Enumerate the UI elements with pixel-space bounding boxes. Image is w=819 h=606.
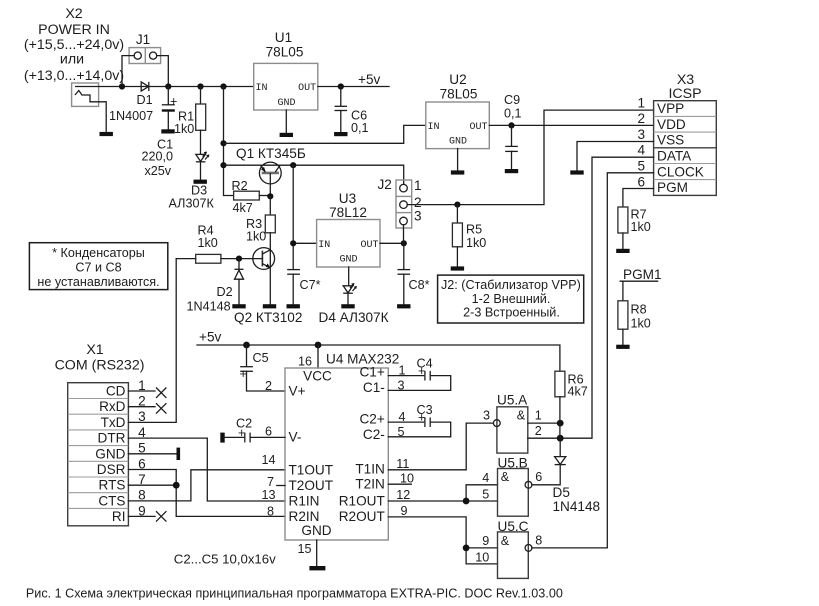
svg-text:R8: R8 [631, 303, 647, 317]
svg-text:X1: X1 [86, 342, 103, 358]
svg-text:D2: D2 [217, 285, 233, 299]
svg-text:VPP: VPP [657, 101, 684, 116]
ground R8 [616, 345, 629, 349]
svg-text:78L05: 78L05 [266, 45, 304, 60]
wire U2 OUT to VDD [489, 124, 653, 126]
svg-text:7: 7 [267, 475, 274, 489]
svg-text:U1: U1 [275, 30, 292, 45]
wire CLOCK line [532, 173, 654, 548]
svg-text:D1: D1 [137, 93, 153, 107]
node R1 branch [197, 83, 203, 89]
svg-text:R2: R2 [232, 179, 248, 193]
svg-text:2: 2 [637, 111, 645, 126]
svg-text:0,1: 0,1 [504, 107, 522, 121]
no-connect X1 pin9 [156, 511, 166, 521]
capacitor C6 0,1 [335, 87, 369, 136]
node R2OUT branch [463, 545, 470, 552]
svg-text:DATA: DATA [657, 148, 692, 163]
note box C7 C8 [29, 243, 167, 290]
svg-text:R1OUT: R1OUT [339, 493, 385, 508]
svg-text:C1-: C1- [363, 380, 385, 395]
svg-text:10: 10 [475, 550, 489, 564]
svg-text:12: 12 [396, 488, 410, 502]
node U5.A in1 / R6 [557, 420, 564, 427]
svg-text:4k7: 4k7 [568, 385, 588, 399]
wire input riser to R2 [224, 87, 234, 196]
no-connect X1 pin1 [156, 388, 166, 398]
jumper J1 [122, 32, 168, 87]
svg-text:D4 АЛ307К: D4 АЛ307К [319, 310, 389, 325]
svg-text:Q1 КТ345Б: Q1 КТ345Б [236, 146, 306, 161]
ground C8 [397, 304, 410, 308]
ground U4 [309, 566, 325, 570]
wire X1 pin1 stub [128, 390, 155, 392]
ground C6 [334, 132, 347, 136]
svg-text:VCC: VCC [303, 369, 332, 384]
wire U3 OUT node [380, 242, 404, 244]
wire DATA line [560, 157, 653, 438]
connector X2 power jack [72, 83, 107, 132]
svg-text:GND: GND [339, 255, 357, 266]
svg-text:T1OUT: T1OUT [289, 462, 334, 477]
svg-text:3: 3 [637, 127, 645, 142]
svg-text:1k0: 1k0 [631, 317, 651, 331]
resistor R1 1k0 [174, 87, 206, 155]
svg-text:U5.A: U5.A [497, 393, 528, 408]
transistor Q1 КТ345Б [236, 146, 306, 196]
svg-text:1: 1 [637, 96, 645, 111]
LED D4 АЛ307К [319, 283, 389, 325]
wire DSR to R2IN [128, 470, 285, 517]
capacitor C5 [240, 345, 286, 391]
svg-text:1N4148: 1N4148 [187, 300, 231, 314]
svg-text:T2OUT: T2OUT [289, 478, 334, 493]
ground D3 [194, 180, 207, 184]
svg-text:x25v: x25v [145, 164, 172, 178]
svg-text:VDD: VDD [657, 117, 686, 132]
svg-text:COM (RS232): COM (RS232) [55, 358, 145, 374]
ground U2 [451, 170, 464, 174]
node VCC tap [315, 342, 322, 349]
ground R5 [451, 266, 464, 270]
svg-text:2: 2 [265, 379, 272, 393]
svg-text:4: 4 [482, 471, 489, 485]
capacitor C2 [220, 417, 285, 443]
regulator U2 78L05 [426, 72, 490, 170]
svg-text:D5: D5 [553, 485, 570, 500]
ground D2 [232, 304, 245, 308]
node input riser [220, 83, 226, 89]
svg-text:9: 9 [482, 534, 489, 548]
ground R7 [616, 249, 629, 253]
node Q1 base / R2 / R3 [267, 193, 273, 199]
ground X1 GND common bar [177, 448, 181, 460]
svg-text:C2-: C2- [363, 427, 385, 442]
connector X3 ICSP [637, 72, 716, 195]
svg-text:+5v: +5v [358, 72, 380, 87]
wire main input line [99, 86, 254, 88]
svg-text:0,1: 0,1 [351, 121, 369, 135]
diode D2 1N4148 [187, 259, 244, 314]
svg-text:OUT: OUT [469, 122, 487, 133]
svg-text:IN: IN [318, 240, 330, 251]
svg-text:IN: IN [256, 83, 268, 94]
svg-text:ICSP: ICSP [668, 86, 701, 102]
capacitor C8 [398, 243, 430, 304]
connector X1 COM (RS232) [55, 342, 147, 526]
node U5.A in2 / DATA / D5 [557, 435, 564, 442]
svg-text:POWER IN: POWER IN [38, 22, 110, 38]
net +5v rail (bottom) [197, 330, 560, 372]
ground C1 [161, 129, 174, 133]
svg-text:C2: C2 [236, 417, 252, 431]
svg-text:V-: V- [289, 430, 302, 445]
node U3 OUT / J2-3 / C8 [401, 240, 407, 246]
wire U5.C input9 branch [466, 547, 497, 549]
node DSR-RTS join [173, 482, 180, 489]
gate U5.C [475, 519, 542, 579]
svg-text:C5: C5 [253, 351, 269, 365]
svg-text:1: 1 [414, 178, 422, 193]
svg-text:78L12: 78L12 [329, 205, 367, 220]
node main-J1 left [119, 83, 125, 89]
svg-text:1k0: 1k0 [198, 236, 218, 250]
svg-text:OUT: OUT [298, 83, 316, 94]
svg-text:DTR: DTR [98, 431, 126, 446]
svg-text:C7*: C7* [300, 278, 321, 292]
svg-text:RxD: RxD [99, 399, 126, 414]
svg-text:1k0: 1k0 [246, 230, 266, 244]
svg-text:C9: C9 [504, 93, 520, 107]
svg-text:14: 14 [261, 453, 275, 467]
wire TxD to R4 [128, 259, 176, 423]
svg-text:2: 2 [535, 424, 542, 438]
svg-text:CTS: CTS [98, 493, 125, 508]
svg-text:C4: C4 [417, 356, 433, 370]
resistor R4 1k0 [176, 224, 262, 264]
node U3 IN / C7 [290, 240, 296, 246]
resistor R8 1k0 [618, 301, 651, 345]
svg-text:U2: U2 [449, 72, 466, 87]
svg-text:PGM1: PGM1 [623, 267, 662, 282]
svg-text:&: & [501, 470, 510, 484]
no-connect X1 pin2 [156, 403, 166, 413]
svg-text:или: или [60, 52, 84, 68]
svg-text:&: & [517, 408, 526, 422]
svg-text:R2IN: R2IN [289, 509, 320, 524]
ground D4 [341, 304, 354, 308]
node riser-U2 rail [220, 140, 226, 146]
svg-text:GND: GND [449, 137, 467, 148]
svg-text:CLOCK: CLOCK [657, 164, 704, 179]
svg-text:1k0: 1k0 [466, 236, 486, 250]
svg-text:16: 16 [298, 355, 312, 369]
svg-text:J2: J2 [378, 177, 392, 192]
node collector rail / C7 branch [290, 162, 296, 168]
node C6 [338, 83, 344, 89]
svg-text:9: 9 [401, 504, 408, 518]
node C5 tap [243, 342, 250, 349]
capacitor C3 [388, 403, 450, 437]
ground Q2 [263, 304, 276, 308]
node Q2 base / D2 [236, 256, 242, 262]
svg-text:13: 13 [261, 488, 275, 502]
svg-text:RTS: RTS [99, 478, 126, 493]
wire J2-2 to VPP [407, 110, 653, 205]
svg-text:VSS: VSS [657, 133, 684, 148]
node riser-collector rail [220, 162, 226, 168]
svg-text:4k7: 4k7 [233, 201, 253, 215]
svg-text:GND: GND [301, 523, 331, 538]
svg-text:1: 1 [535, 409, 542, 423]
ground C9 [505, 169, 518, 173]
svg-text:1k0: 1k0 [631, 220, 651, 234]
svg-text:220,0: 220,0 [142, 150, 174, 164]
svg-text:5: 5 [482, 488, 489, 502]
wire U4 GND pin15 [316, 540, 318, 566]
svg-text:Рис. 1 Схема электрическая пр: Рис. 1 Схема электрическая принципиальна… [26, 587, 563, 601]
svg-text:С2...С5 10,0х16v: С2...С5 10,0х16v [174, 552, 276, 567]
wire DTR to R1IN [128, 438, 285, 501]
svg-text:J1: J1 [136, 32, 150, 47]
resistor R6 4k7 [555, 371, 588, 438]
wire R2OUT to U5.C inputs [388, 517, 497, 564]
svg-text:OUT: OUT [360, 240, 378, 251]
svg-text:1k0: 1k0 [174, 122, 194, 136]
svg-text:6: 6 [265, 425, 272, 439]
wire U1 out to +5v [318, 86, 389, 88]
resistor R2 4k7 [232, 179, 271, 215]
wire X1 pin9 stub [128, 515, 155, 517]
svg-text:4: 4 [637, 143, 645, 158]
svg-text:1N4007: 1N4007 [109, 109, 153, 123]
svg-text:Q2 КТ3102: Q2 КТ3102 [234, 310, 302, 325]
wire U5.B input4 branch [466, 485, 497, 501]
node C9 [508, 122, 514, 128]
svg-text:U3: U3 [339, 191, 356, 206]
svg-text:не устанавливаются.: не устанавливаются. [37, 275, 159, 289]
capacitor C9 0,1 [504, 93, 522, 169]
net PGM1 [620, 267, 661, 301]
wire R1OUT to U5.B inputs [388, 500, 497, 502]
note box J2 [438, 275, 584, 323]
svg-text:6: 6 [637, 174, 645, 189]
regulator U1 78L05 [254, 30, 318, 133]
IC U4 MAX232 [261, 352, 414, 557]
svg-text:5: 5 [637, 158, 645, 173]
svg-text:АЛ307К: АЛ307К [169, 197, 215, 211]
node R5 tap [454, 202, 460, 208]
wire C7 branch / U3 IN [293, 165, 316, 269]
capacitor C1 220,0 x25v [142, 87, 178, 179]
capacitor C4 [388, 356, 450, 390]
ground VSS [570, 170, 583, 174]
node D1 cathode / C1 [165, 83, 171, 89]
connector X2 label POWER IN [24, 6, 124, 84]
wire GND stub [128, 453, 176, 455]
stub T2OUT [277, 485, 285, 487]
ground U1 [280, 133, 293, 137]
ground C7 [287, 304, 300, 308]
svg-text:+5v: +5v [199, 330, 221, 345]
svg-text:T1IN: T1IN [355, 462, 384, 477]
svg-text:+: + [240, 367, 247, 381]
svg-text:11: 11 [396, 457, 409, 471]
svg-text:1-2 Внешний.: 1-2 Внешний. [472, 292, 551, 306]
svg-text:3: 3 [483, 409, 490, 423]
resistor R7 1k0 [618, 207, 651, 249]
wire RTS stub [128, 484, 176, 486]
svg-text:10: 10 [400, 472, 414, 486]
svg-text:GND: GND [277, 98, 295, 109]
wire VCC pin16 [317, 345, 319, 368]
wire VSS to ground [577, 142, 654, 171]
gate U5.B [482, 456, 542, 517]
transistor Q2 КТ3102 [234, 248, 302, 325]
svg-text:PGM: PGM [657, 180, 688, 195]
diode D1 1N4007 [109, 82, 153, 123]
svg-text:(+13,0...+14,0v): (+13,0...+14,0v) [24, 68, 124, 84]
wire rail to U2 IN [224, 125, 426, 143]
stub T2IN [388, 483, 411, 485]
svg-text:R1IN: R1IN [289, 494, 320, 509]
svg-text:DSR: DSR [97, 462, 126, 477]
svg-text:C3: C3 [417, 403, 433, 417]
svg-text:J2: (Стабилизатор VPP): J2: (Стабилизатор VPP) [441, 278, 581, 292]
svg-text:V+: V+ [289, 384, 306, 399]
svg-text:15: 15 [297, 542, 311, 556]
svg-text:8: 8 [267, 504, 274, 518]
svg-text:&: & [501, 534, 510, 548]
svg-text:IN: IN [428, 122, 440, 133]
svg-text:C2+: C2+ [359, 411, 384, 426]
svg-text:GND: GND [95, 446, 125, 461]
svg-text:78L05: 78L05 [440, 87, 478, 102]
svg-text:R5: R5 [466, 223, 482, 237]
diode D5 1N4148 [532, 438, 600, 514]
regulator U3 78L12 [317, 191, 380, 286]
svg-text:2-3 Встроенный.: 2-3 Встроенный. [463, 306, 560, 320]
svg-text:1N4148: 1N4148 [553, 499, 601, 514]
resistor R5 1k0 [452, 205, 486, 267]
svg-text:С7 и С8: С7 и С8 [75, 261, 121, 275]
svg-text:6: 6 [535, 470, 542, 484]
svg-text:3: 3 [414, 209, 422, 224]
wire CTS to T1OUT [128, 470, 285, 501]
svg-text:R2OUT: R2OUT [339, 509, 385, 524]
svg-text:C8*: C8* [409, 278, 430, 292]
svg-text:TxD: TxD [101, 415, 126, 430]
svg-text:8: 8 [535, 534, 542, 548]
svg-text:T2IN: T2IN [355, 476, 384, 491]
wire PGM to R7 [623, 189, 654, 208]
wire X1 pin2 stub [128, 406, 155, 408]
svg-text:RI: RI [112, 509, 126, 524]
svg-text:C1+: C1+ [359, 364, 384, 379]
wire Q1 collector rail to J2 pin1 [224, 165, 404, 184]
svg-text:* Конденсаторы: * Конденсаторы [52, 246, 145, 260]
wire T1IN to U5.A output [388, 423, 493, 470]
svg-text:CD: CD [106, 384, 126, 399]
gate U5.A [483, 393, 560, 454]
svg-text:+: + [170, 95, 177, 109]
svg-text:X2: X2 [65, 6, 82, 22]
connector J2 [378, 177, 422, 243]
ground X2 [100, 132, 113, 136]
capacitor C7 [287, 270, 320, 305]
resistor R3 1k0 [246, 196, 275, 250]
LED D3 АЛ307К [169, 152, 215, 211]
node R1OUT branch [463, 498, 470, 505]
svg-text:D3: D3 [191, 184, 207, 198]
